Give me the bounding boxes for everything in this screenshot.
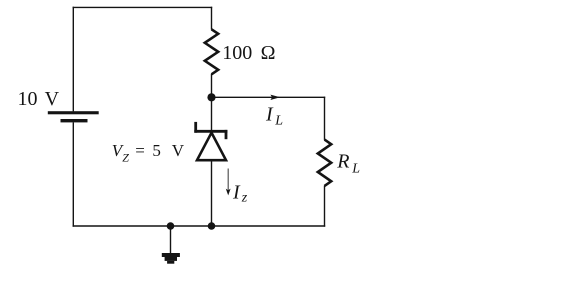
current arrow Iz shaft (227, 169, 229, 191)
node junction dot zener bottom (208, 222, 216, 230)
wire node to zener (211, 97, 213, 131)
wire top horizontal (73, 6, 213, 8)
battery V1 top plate (48, 111, 99, 114)
wire middle horizontal (212, 96, 326, 98)
svg-text:RL: RL (336, 151, 360, 177)
svg-text:IL: IL (265, 104, 283, 129)
ground symbol (162, 253, 180, 264)
svg-text:10V: 10V (18, 88, 60, 110)
svg-text:100Ω: 100Ω (222, 42, 275, 64)
wire ground stem (170, 226, 172, 253)
wire right vertical upper (324, 97, 326, 140)
node junction dot A (207, 93, 215, 101)
wire bottom horizontal (73, 225, 326, 227)
resistor RL zigzag (318, 140, 331, 186)
wire right vertical lower (324, 186, 326, 227)
wire resistor to node (211, 74, 213, 98)
zener diode D1 cathode bar (194, 130, 227, 133)
svg-text:VZ=5V: VZ=5V (112, 141, 185, 164)
wire middle branch top (211, 7, 213, 30)
node junction dot ground tap (167, 222, 175, 230)
svg-text:Iz: Iz (232, 181, 248, 205)
current arrow Iz head (226, 189, 231, 196)
zener diode D1 right bend (225, 130, 228, 139)
wire zener to bottom (211, 160, 213, 226)
current arrow IL (270, 95, 280, 100)
wire left vertical lower (72, 122, 74, 226)
wire left vertical upper (72, 7, 74, 112)
resistor 100 ohm zigzag (205, 29, 218, 74)
battery V1 bottom plate (61, 119, 88, 122)
zener diode D1 triangle (197, 133, 226, 161)
zener diode D1 left bend (194, 122, 197, 133)
